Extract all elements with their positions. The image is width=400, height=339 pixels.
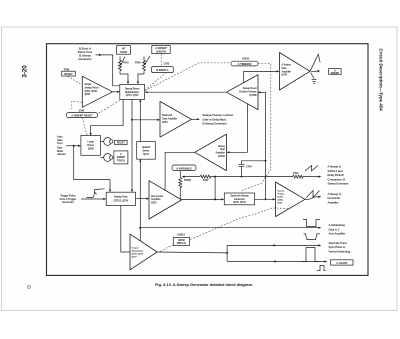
multivibrator sweep reset Q774 — [120, 84, 145, 99]
svg-text:LENGTH: LENGTH — [156, 49, 167, 53]
lamp B795 reset — [101, 138, 113, 146]
label A SWEEP TRIG'D — [114, 151, 128, 164]
svg-text:Axis Amplifier: Axis Amplifier — [329, 232, 346, 236]
node delayed sweep lockout text — [203, 113, 234, 125]
svg-text:TRIG'D: TRIG'D — [117, 160, 125, 163]
switch B ENDS A — [152, 67, 174, 73]
dashed link horiz display to buffer — [191, 208, 289, 240]
wire buffer output 2 — [305, 196, 321, 200]
svg-text:Gate to Delay Mult,: Gate to Delay Mult, — [203, 117, 227, 121]
amplifier single sweep reset Q781 — [82, 76, 112, 107]
amplifier sweep reset emitter follower Q743B — [227, 75, 259, 110]
resistor R765C — [179, 171, 192, 189]
wire holdoff to multivibrator — [139, 99, 141, 141]
svg-text:Gate Amplifier: Gate Amplifier — [162, 117, 177, 120]
svg-text:Generator: Generator — [78, 57, 92, 61]
svg-text:Gate to Z: Gate to Z — [329, 227, 340, 231]
svg-text:CR752, Q704: CR752, Q704 — [113, 199, 128, 202]
timing rail segment — [211, 176, 293, 178]
svg-text:Disconnect: Disconnect — [151, 195, 163, 198]
svg-text:A SWEEP RESET: A SWEEP RESET — [71, 113, 93, 117]
dashed link horiz display to output amp — [160, 245, 173, 252]
wire holdoff input from below — [139, 159, 141, 241]
wire timing node riser — [214, 176, 216, 200]
svg-text:Q781, Q783,: Q781, Q783, — [85, 91, 98, 93]
svg-text:HF: HF — [122, 46, 126, 50]
amplifier sawtooth gate Q764 — [160, 101, 191, 137]
wire auto gate to sweep gate — [74, 146, 111, 192]
wire R760 to multivibrator — [137, 74, 144, 84]
resistor R743 — [119, 57, 130, 75]
page number 3-20 — [22, 65, 29, 78]
wire alternate trace sync line — [227, 244, 321, 246]
dashed link A SWEEP LENGTH to B ENDS A — [160, 54, 162, 67]
wire unblanking gate line — [140, 227, 321, 229]
svg-text:Q714: Q714 — [143, 153, 149, 156]
svg-text:RESET: RESET — [64, 72, 73, 76]
wire auto gate to lamp driver — [66, 145, 81, 147]
svg-text:S1001 A and: S1001 A and — [328, 169, 343, 173]
svg-text:Amplifier: Amplifier — [151, 198, 161, 201]
svg-text:Buffer: Buffer — [277, 197, 283, 199]
waveform unblanking gate — [303, 220, 320, 227]
svg-text:Single: Single — [85, 84, 92, 86]
waveform alternate trace sync — [304, 233, 321, 239]
svg-text:Output: Output — [277, 193, 284, 196]
svg-text:Q774, Q772: Q774, Q772 — [126, 94, 139, 97]
dashed link A TIME/DIV down — [258, 64, 271, 169]
wire disconnect amp to sawtooth generator — [182, 198, 225, 200]
diagram border frame — [47, 44, 369, 276]
svg-text:SWEEP: SWEEP — [331, 72, 340, 75]
amplifier sweep start Q743A — [195, 134, 227, 171]
waveform sawtooth 1 — [305, 166, 318, 172]
waveform fragment below gate — [317, 266, 326, 271]
wire R765C to output line — [179, 189, 181, 200]
svg-text:Amplifier: Amplifier — [328, 200, 339, 204]
svg-text:Amplifier: Amplifier — [282, 70, 292, 73]
waveform A gate pulse — [302, 248, 319, 262]
resistor R741 — [293, 172, 303, 178]
block holdoff driver Q714 — [137, 142, 156, 160]
node output 1 text — [328, 165, 349, 186]
wiper arrow A SWEEP LENGTH to R760 — [144, 56, 150, 65]
switch A SWEEP RESET — [66, 113, 97, 118]
switch wiper at A sweep gate output — [310, 54, 320, 72]
wire A gate line — [227, 260, 327, 262]
amplifier output signal Q705 — [130, 234, 157, 270]
node output 2 text — [328, 192, 342, 205]
svg-text:Signal Amp: Signal Amp — [132, 250, 144, 253]
svg-text:Q743A: Q743A — [218, 155, 225, 158]
svg-text:HORIZ: HORIZ — [178, 240, 186, 242]
svg-text:S790: S790 — [79, 110, 85, 113]
wire sweep start amp output to disconnect — [165, 152, 195, 191]
node trigger pulse input text — [60, 194, 77, 204]
svg-text:Sweep: Sweep — [218, 146, 226, 148]
wire R743 to multivibrator — [120, 74, 129, 84]
wire splitter verticals — [226, 245, 228, 261]
svg-text:Vertical Switching: Vertical Switching — [329, 249, 351, 253]
svg-text:3-20: 3-20 — [22, 65, 29, 78]
svg-text:R765C: R765C — [184, 179, 192, 182]
svg-text:R743: R743 — [123, 62, 129, 65]
svg-text:Q744,: Q744, — [277, 199, 283, 202]
label C783 — [164, 62, 170, 65]
wire junction to sawtooth gate amp — [132, 119, 160, 121]
dashed link triangle to S790 — [72, 101, 82, 109]
svg-text:from: from — [57, 141, 63, 145]
svg-text:Q707: Q707 — [132, 257, 138, 259]
svg-text:Gate: Gate — [282, 67, 288, 70]
svg-text:A Sweep to: A Sweep to — [328, 192, 342, 196]
wire EF output to multivibrator — [145, 91, 227, 93]
svg-text:DISPLAY: DISPLAY — [177, 242, 187, 245]
dashed link A SWEEP RESET to multivibrator — [99, 101, 120, 114]
switch A VARIABLE — [172, 165, 196, 171]
wire mult down to sweep gate — [131, 99, 133, 192]
wire sweep start input from EF edge — [227, 104, 248, 154]
wire sweep gate to output signal amp — [121, 206, 130, 253]
svg-text:B ENDS A: B ENDS A — [156, 68, 168, 72]
svg-text:Comparator, B: Comparator, B — [328, 177, 346, 181]
dashed link horiz display up right — [242, 169, 271, 191]
node auto gate input text — [57, 135, 66, 157]
printer mark bottom-left — [27, 285, 30, 288]
block sawtooth sweep generator Q730 — [224, 193, 254, 205]
wiper arrow HF STAB to R743 — [120, 57, 125, 66]
svg-text:Delayed Sweep Lockout: Delayed Sweep Lockout — [203, 113, 234, 117]
caption Fig. 3-13 — [155, 282, 253, 287]
wire sweep gate to disconnect amp — [136, 198, 150, 200]
node: B Ends A pulse input text — [78, 47, 93, 62]
control HF STAB — [117, 46, 131, 55]
svg-text:Alternate Trace: Alternate Trace — [329, 241, 348, 245]
wire tap to A sweep gate amplifier — [244, 70, 280, 82]
svg-text:B Sweep Generator: B Sweep Generator — [203, 122, 228, 126]
svg-text:RESET: RESET — [117, 142, 126, 145]
svg-text:Q743B: Q743B — [249, 94, 256, 97]
label S1001A — [177, 234, 185, 237]
amplifier sweep output buffer Q744 — [276, 182, 306, 217]
svg-text:Sweep Gate: Sweep Gate — [114, 196, 128, 199]
indicator A SWEEP — [329, 69, 342, 75]
svg-text:C783: C783 — [164, 62, 170, 65]
node output 4 text — [329, 241, 351, 254]
dashed link A SWEEP RESET to lamp driver — [82, 118, 87, 136]
wire output signal amp to splitter — [157, 252, 228, 254]
svg-text:Q785: Q785 — [85, 94, 91, 96]
label RESET lamp — [115, 140, 128, 144]
wire trigger to sweep gate — [81, 198, 106, 200]
resistor R767 — [200, 175, 211, 182]
svg-text:Generator: Generator — [62, 200, 74, 204]
svg-text:Output: Output — [132, 247, 139, 250]
ground at switch — [311, 73, 317, 84]
label S750A — [242, 58, 249, 61]
svg-text:vibrator: vibrator — [57, 152, 66, 156]
svg-text:S1001A: S1001A — [177, 234, 185, 237]
node output 3 text — [329, 223, 346, 236]
svg-text:A Sweep: A Sweep — [282, 64, 292, 67]
svg-text:Circuit Description—Type 454: Circuit Description—Type 454 — [379, 48, 384, 111]
svg-text:Q705, Q706,: Q705, Q706, — [132, 254, 144, 256]
svg-text:Sweep Generator: Sweep Generator — [328, 182, 349, 186]
wire EF input from timing node — [258, 91, 266, 199]
indicator A +/- GATE — [331, 260, 353, 265]
block sweep gate CR752 — [106, 192, 135, 205]
svg-text:A ±GATE: A ±GATE — [336, 261, 347, 265]
svg-text:Sync Pulse to: Sync Pulse to — [329, 245, 346, 249]
svg-text:Amplifier: Amplifier — [215, 152, 225, 155]
control RESET — [62, 71, 76, 76]
control A SWEEP LENGTH — [152, 46, 170, 54]
svg-text:S750A: S750A — [242, 58, 249, 61]
svg-text:Horizontal: Horizontal — [328, 196, 341, 200]
timing rail with wiper arrow — [182, 176, 200, 178]
svg-text:A VARIABLE: A VARIABLE — [176, 166, 192, 170]
dashed link RESET to single sweep reset — [68, 76, 82, 84]
svg-text:A Unblanking: A Unblanking — [329, 223, 346, 227]
amplifier disconnect Q724 — [149, 181, 182, 219]
svg-text:R760: R760 — [135, 62, 141, 65]
svg-text:Emitter Follower: Emitter Follower — [239, 90, 256, 93]
svg-text:Sawtooth: Sawtooth — [162, 114, 173, 117]
svg-text:STAB: STAB — [120, 50, 127, 54]
svg-text:A Sweep to: A Sweep to — [328, 165, 342, 169]
svg-text:Sweep Reset: Sweep Reset — [85, 86, 99, 89]
svg-text:Q747: Q747 — [277, 202, 283, 205]
dashed link multivibrator to A TIME/DIV — [145, 63, 231, 91]
right margin vertical text — [379, 48, 384, 111]
wire sawtooth gen to buffer — [255, 198, 276, 200]
switch HORIZ DISPLAY — [173, 237, 189, 245]
label S790 — [79, 110, 85, 113]
svg-text:Start: Start — [220, 148, 225, 151]
svg-text:Q730, Q734: Q730, Q734 — [233, 201, 246, 204]
wire single sweep reset to multivibrator — [113, 91, 120, 93]
svg-text:R741: R741 — [293, 172, 299, 175]
waveform sawtooth 2 — [307, 191, 320, 198]
svg-text:Sweep Reset: Sweep Reset — [243, 87, 257, 90]
label R785 — [64, 68, 70, 71]
svg-text:Q724: Q724 — [151, 202, 157, 205]
svg-text:C764: C764 — [246, 165, 252, 168]
svg-text:Q764: Q764 — [162, 121, 168, 124]
svg-text:Fig. 3-13. A Sweep Generator d: Fig. 3-13. A Sweep Generator detailed bl… — [155, 282, 253, 287]
dashed link multivibrator to B ENDS A — [145, 73, 166, 91]
svg-text:A TIME/DIV: A TIME/DIV — [238, 62, 252, 66]
wire sawtooth gate amp output — [191, 118, 199, 120]
switch A TIME/DIV — [231, 61, 258, 66]
svg-text:Delay Pickoff: Delay Pickoff — [328, 173, 344, 177]
amplifier A sweep gate Q756 — [280, 53, 311, 91]
svg-text:R767: R767 — [203, 179, 209, 182]
svg-text:Sweep: Sweep — [277, 191, 284, 193]
svg-text:Q756: Q756 — [282, 75, 288, 77]
capacitor C764 — [239, 160, 267, 178]
wire mult to lamp driver — [90, 99, 124, 135]
wire B Ends A pulse to multivibrator — [96, 54, 120, 86]
node junction — [131, 119, 133, 121]
lamp B796 trig'd — [101, 154, 113, 162]
block lamp driver Q796 — [81, 136, 101, 156]
resistor R760 — [135, 57, 146, 75]
wire sawtooth output 1 — [303, 176, 322, 178]
waveform trigger step — [87, 189, 105, 198]
svg-text:Q796: Q796 — [88, 147, 94, 150]
